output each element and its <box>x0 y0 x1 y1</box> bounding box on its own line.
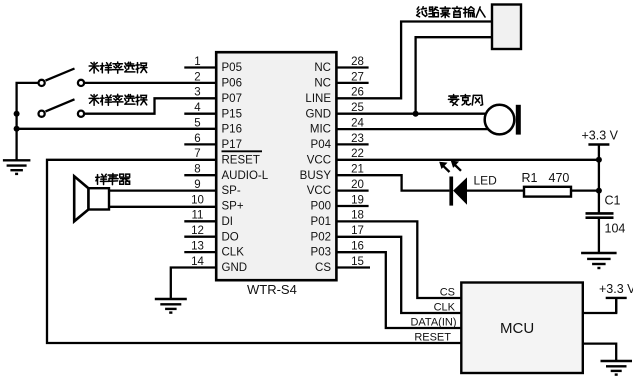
svg-text:R1: R1 <box>522 171 538 185</box>
pin 7 RESET <box>194 148 262 166</box>
switch SW1 sample-rate <box>39 69 85 87</box>
wire speaker to SP- pin9 <box>100 189 216 191</box>
wire R1 to +3.3V rail <box>571 189 599 191</box>
pin 24 MIC <box>310 117 365 135</box>
label net CS CLK DATA(IN) RESET <box>410 287 456 344</box>
pin 3 P07 <box>194 87 242 105</box>
resistor R1 <box>524 187 571 197</box>
svg-text:CLK: CLK <box>222 247 245 259</box>
svg-text:8: 8 <box>194 164 200 176</box>
speaker LS1 <box>74 176 109 221</box>
svg-text:+3.3 V: +3.3 V <box>582 129 619 143</box>
svg-text:VCC: VCC <box>307 154 331 166</box>
svg-text:SP-: SP- <box>222 185 241 197</box>
pin 22 VCC <box>307 148 364 166</box>
wire GND pin14 <box>171 268 216 300</box>
svg-text:20: 20 <box>351 179 364 191</box>
chip U1 WTR-S4 body <box>216 52 336 280</box>
wire MCU GND <box>583 344 616 361</box>
svg-text:18: 18 <box>351 210 364 222</box>
wire GND pin25 to microphone <box>336 113 487 115</box>
svg-text:15: 15 <box>351 256 364 268</box>
svg-text:3: 3 <box>194 87 200 99</box>
pin 11 DI <box>184 210 233 228</box>
pin 4 P15 <box>184 102 242 120</box>
svg-text:17: 17 <box>351 225 364 237</box>
pin 27 NC <box>314 71 368 89</box>
svg-text:19: 19 <box>351 194 364 206</box>
svg-text:P15: P15 <box>222 108 242 120</box>
MCU U2 <box>461 283 583 374</box>
pin 5 P16 <box>194 117 242 135</box>
pin 15 CS <box>315 256 370 274</box>
svg-text:VCC: VCC <box>307 185 331 197</box>
svg-text:12: 12 <box>191 225 204 237</box>
svg-text:NC: NC <box>314 62 331 74</box>
svg-text:+3.3 V: +3.3 V <box>599 282 633 296</box>
svg-text:4: 4 <box>194 102 201 114</box>
svg-text:P03: P03 <box>311 247 331 259</box>
label microphone label <box>448 95 482 106</box>
wire speaker to SP+ pin10 <box>100 206 216 208</box>
wire SW2 to P07 pin3 <box>84 98 216 113</box>
svg-text:16: 16 <box>351 241 364 253</box>
wire RESET net pin7 to MCU <box>47 160 461 343</box>
ground chip GND <box>155 299 187 313</box>
svg-text:9: 9 <box>194 179 200 191</box>
wire GND pin25 to line-in connector <box>416 37 492 114</box>
wire P03 pin16 to MCU DATA(IN) <box>336 252 461 328</box>
svg-text:P06: P06 <box>222 78 242 90</box>
pin 9 SP- <box>194 179 241 197</box>
switch SW2 sample-rate <box>39 99 85 116</box>
svg-text:13: 13 <box>191 241 204 253</box>
svg-text:CS: CS <box>315 262 331 274</box>
pin 25 GND <box>305 102 363 120</box>
pin 16 P03 <box>311 241 364 259</box>
svg-text:CLK: CLK <box>434 302 456 314</box>
wire switch common vertical <box>17 83 39 160</box>
pin 10 SP+ <box>191 194 244 212</box>
svg-text:5: 5 <box>194 117 200 129</box>
svg-text:470: 470 <box>549 171 570 185</box>
ground C1 <box>581 253 617 268</box>
ground switch common <box>3 160 31 174</box>
pin 17 P02 <box>311 225 364 243</box>
svg-text:24: 24 <box>351 117 364 129</box>
label C1 value 104 <box>605 194 626 236</box>
svg-text:LINE: LINE <box>305 93 331 105</box>
svg-text:BUSY: BUSY <box>300 170 332 182</box>
svg-text:MIC: MIC <box>310 124 331 136</box>
svg-text:C1: C1 <box>605 194 621 208</box>
pin 8 AUDIO-L <box>184 164 268 182</box>
svg-text:P16: P16 <box>222 124 242 136</box>
wire P01 pin18 to MCU CS <box>336 221 461 298</box>
wire P02 pin17 to MCU CLK <box>336 237 461 313</box>
svg-text:P01: P01 <box>311 216 331 228</box>
label speaker label <box>96 174 130 185</box>
junction dot VCC rail <box>596 157 602 163</box>
svg-text:LED: LED <box>474 174 498 188</box>
svg-text:RESET: RESET <box>222 154 260 166</box>
wire SW1 to P06 pin2 <box>84 82 216 84</box>
ground MCU <box>601 361 633 375</box>
LED D1 <box>439 161 467 206</box>
svg-text:AUDIO-L: AUDIO-L <box>222 170 269 182</box>
pin 21 BUSY <box>300 164 364 182</box>
svg-text:P05: P05 <box>222 62 242 74</box>
label R1 value 470 <box>522 171 570 185</box>
svg-text:WTR-S4: WTR-S4 <box>247 282 297 297</box>
capacitor C1 <box>586 213 614 253</box>
svg-text:NC: NC <box>314 78 331 90</box>
svg-text:10: 10 <box>191 194 204 206</box>
wire common to P16 pin5 <box>17 128 217 130</box>
connector J1 line-in <box>492 5 521 50</box>
svg-text:104: 104 <box>605 222 626 236</box>
pin 2 P06 <box>194 71 242 89</box>
svg-text:22: 22 <box>351 148 364 160</box>
pin 28 NC <box>314 56 368 74</box>
svg-text:CS: CS <box>440 287 455 299</box>
pin 12 DO <box>184 225 239 243</box>
svg-text:25: 25 <box>351 102 364 114</box>
pin 20 VCC <box>307 179 369 197</box>
pin 6 P17 <box>184 133 242 151</box>
power +3.3V VCC rail <box>582 129 619 214</box>
pin 14 GND <box>191 256 247 274</box>
power +3.3V MCU supply <box>599 282 633 313</box>
svg-text:DATA(IN): DATA(IN) <box>410 317 456 329</box>
svg-text:MCU: MCU <box>500 320 534 337</box>
svg-text:DI: DI <box>222 216 234 228</box>
wire MIC pin24 to microphone <box>336 128 490 130</box>
pin 18 P01 <box>311 210 364 228</box>
svg-text:7: 7 <box>194 148 200 160</box>
junction dot common-P16 <box>14 126 20 132</box>
pin 1 P05 <box>184 56 242 74</box>
svg-text:P07: P07 <box>222 93 242 105</box>
svg-text:GND: GND <box>305 108 331 120</box>
svg-text:26: 26 <box>351 87 364 99</box>
svg-text:DO: DO <box>222 231 239 243</box>
svg-text:P17: P17 <box>222 139 242 151</box>
wire BUSY pin21 to LED <box>336 175 449 190</box>
pin 19 P00 <box>311 194 369 212</box>
svg-text:GND: GND <box>222 262 248 274</box>
svg-text:27: 27 <box>351 71 364 83</box>
junction dot common-switch2 <box>14 111 20 117</box>
label line record input <box>417 7 485 18</box>
svg-text:6: 6 <box>194 133 200 145</box>
svg-text:1: 1 <box>194 56 200 68</box>
wire LINE pin26 to line-in connector <box>336 22 492 99</box>
svg-text:11: 11 <box>192 210 204 222</box>
wire LED to R1 <box>467 189 524 191</box>
junction dot R1 rail <box>596 188 602 194</box>
svg-text:P00: P00 <box>311 201 331 213</box>
microphone MK1 <box>485 105 521 135</box>
label sample-rate-select 2 <box>89 94 147 105</box>
wire MCU VCC to +3.3V <box>583 298 616 313</box>
junction dot pin25 line-in <box>413 111 419 117</box>
svg-text:RESET: RESET <box>414 332 451 344</box>
svg-text:23: 23 <box>351 133 364 145</box>
wire VCC pin22 to +3.3V <box>336 159 599 161</box>
svg-text:P02: P02 <box>311 231 331 243</box>
label sample-rate-select 1 <box>89 62 147 73</box>
svg-text:21: 21 <box>351 164 364 176</box>
svg-text:2: 2 <box>194 71 200 83</box>
svg-text:SP+: SP+ <box>222 201 244 213</box>
svg-text:P04: P04 <box>311 139 332 151</box>
svg-text:28: 28 <box>351 56 364 68</box>
pin 23 P04 <box>311 133 369 151</box>
pin 26 LINE <box>305 87 363 105</box>
svg-text:14: 14 <box>191 256 204 268</box>
pin 13 CLK <box>184 241 244 259</box>
